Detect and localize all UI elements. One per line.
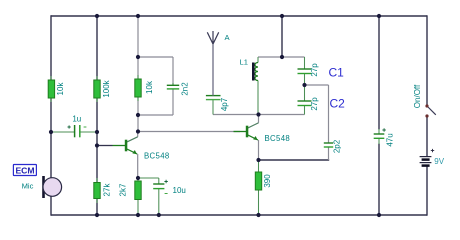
antenna A	[207, 31, 218, 96]
svg-text:ECM: ECM	[15, 165, 34, 175]
svg-text:27p: 27p	[310, 63, 319, 77]
capacitor C6 2p2 (feedback)	[324, 143, 333, 147]
wire left rail upper (mic to top rail)	[50, 15, 52, 178]
transistor Q2 BC548 (oscillator)	[234, 115, 259, 161]
label ECM boxed	[13, 165, 36, 176]
value label 27p (C1)	[310, 63, 319, 77]
wire tank top (L1 to C1)	[258, 56, 305, 58]
value label 2k7 (R5)	[118, 183, 127, 196]
wire Q2 emitter to 2p2 (y=160)	[259, 147, 330, 160]
value label 390 (R6)	[263, 174, 272, 188]
capacitor C2 27p	[298, 85, 312, 115]
label On/Off (SW1)	[413, 84, 422, 108]
switch SW1 On/Off	[425, 104, 435, 117]
svg-text:C1: C1	[329, 66, 345, 80]
svg-text:On/Off: On/Off	[413, 84, 422, 108]
capacitor C4 2n2	[167, 83, 179, 89]
wire switch to battery	[426, 116, 428, 156]
resistor R5 2k7	[135, 178, 141, 215]
resistor R6 390	[255, 160, 261, 215]
wire tank feed from top rail x=282	[281, 16, 283, 57]
svg-text:47u: 47u	[386, 133, 395, 146]
wire bottom 0V rail	[51, 214, 427, 216]
resistor R3 10k (collector load)	[135, 75, 141, 101]
svg-text:27k: 27k	[103, 183, 112, 197]
svg-text:100k: 100k	[102, 79, 111, 97]
part label BC548 (Q1)	[144, 152, 170, 161]
value label 10u (C7)	[173, 186, 186, 195]
wire switch/battery branch upper	[426, 15, 428, 106]
wire 47u branch lower	[378, 144, 380, 216]
wire 10k/2n2 branch x=138 upper	[137, 16, 139, 79]
resistor R2 100k	[94, 76, 100, 102]
wire 100k branch upper	[96, 16, 98, 80]
svg-text:BC548: BC548	[144, 152, 170, 161]
wire 2n2 parallel loop right upper	[172, 57, 174, 85]
value label 10k (R1)	[56, 82, 65, 96]
wire 2n2 parallel loop bottom	[138, 114, 173, 116]
label A (antenna node)	[225, 33, 231, 42]
resistor R4 27k	[94, 178, 100, 203]
designator label L1	[240, 58, 248, 67]
svg-text:10k: 10k	[145, 80, 154, 94]
svg-text:4p7: 4p7	[220, 97, 229, 111]
label Mic	[22, 181, 34, 190]
svg-text:27p: 27p	[310, 97, 319, 111]
capacitor C5 4p7 (antenna coupling)	[206, 96, 221, 115]
battery B1 9V	[420, 149, 435, 166]
value label 2n2 (C4)	[180, 82, 189, 96]
wire Q1 collector to Q2 base (y=131.5)	[138, 131, 240, 133]
designator label C2	[330, 97, 346, 111]
microphone ECM Mic symbol	[42, 176, 61, 198]
value label 1u (C3)	[72, 115, 81, 124]
capacitor C1 27p	[298, 57, 312, 85]
svg-text:1u: 1u	[72, 115, 81, 124]
resistor R1 10k	[48, 76, 54, 102]
capacitor C8 47u electrolytic (supply decoupling)	[374, 128, 386, 144]
wire 2n2 parallel loop right lower	[172, 89, 174, 115]
part label BC548 (Q2)	[265, 134, 291, 143]
value label 10k (R3)	[145, 80, 154, 94]
wire 27k branch lower	[96, 199, 98, 216]
wire Q1 base from bias divider	[97, 145, 113, 147]
svg-text:2k7: 2k7	[118, 183, 127, 196]
value label 27p (C2)	[310, 97, 319, 111]
wire C1/C2 junction to 2p2 branch	[305, 84, 329, 86]
designator label C1	[329, 66, 345, 80]
value label 9V (B1)	[434, 157, 444, 166]
svg-text:C2: C2	[330, 97, 346, 111]
value label 4p7 (C5)	[220, 97, 229, 111]
svg-text:9V: 9V	[434, 157, 444, 166]
wire 47u branch upper	[378, 16, 380, 130]
inductor L1 tank coil	[252, 57, 258, 115]
wire 2n2 parallel loop top	[138, 56, 173, 58]
svg-text:390: 390	[263, 174, 272, 188]
svg-text:L1: L1	[240, 58, 248, 67]
value label 2p2 (C6)	[332, 139, 341, 153]
wire 10k branch between body and junction	[137, 97, 139, 132]
svg-text:Mic: Mic	[22, 181, 34, 190]
wire tank bottom (4p7 to C2 bottom)	[213, 114, 305, 116]
svg-text:10k: 10k	[56, 82, 65, 96]
wire 100k-to-27k branch middle	[96, 98, 98, 183]
value label 100k (R2)	[102, 79, 111, 97]
wire top supply rail	[51, 15, 427, 17]
svg-text:2p2: 2p2	[332, 139, 341, 153]
wire 2p2 branch vertical	[328, 85, 330, 143]
svg-text:BC548: BC548	[265, 134, 291, 143]
transistor Q1 BC548 (audio preamp)	[113, 132, 138, 179]
svg-text:10u: 10u	[173, 186, 186, 195]
svg-text:2n2: 2n2	[180, 82, 189, 96]
capacitor C7 10u electrolytic (emitter bypass)	[138, 178, 168, 215]
value label 27k (R4)	[103, 183, 112, 197]
wire left rail lower (mic to bottom rail)	[50, 196, 52, 216]
value label 47u (C8)	[386, 133, 395, 146]
capacitor C3 1u electrolytic (mic coupling)	[51, 125, 97, 137]
wire battery to bottom rail	[426, 166, 428, 216]
